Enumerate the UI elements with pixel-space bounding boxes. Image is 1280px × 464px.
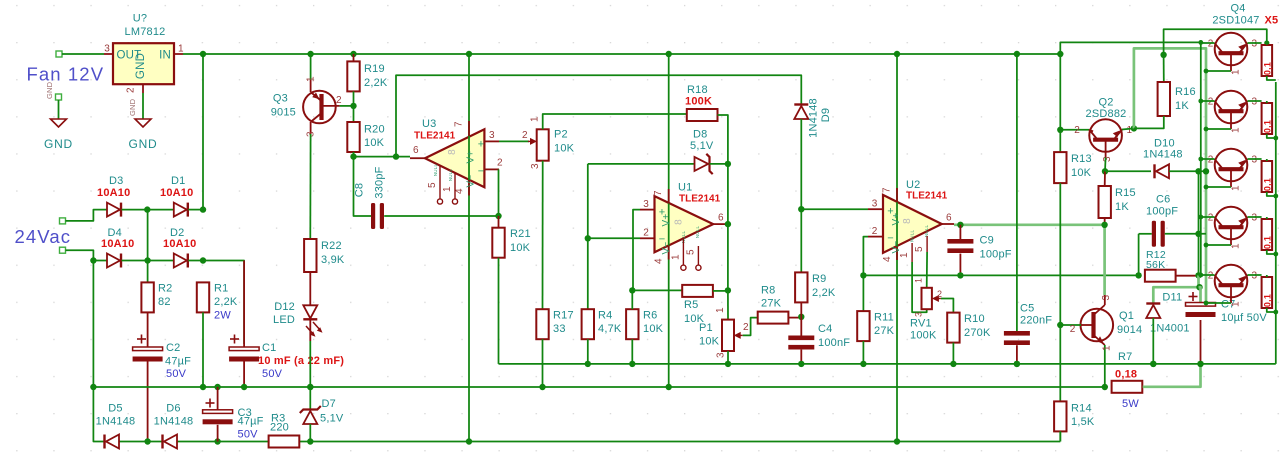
svg-text:3: 3 bbox=[1252, 97, 1258, 108]
wire base hook 3 bbox=[1206, 186, 1231, 188]
pin 1 of U? bbox=[174, 53, 183, 55]
wire feedback up and over to D9 bbox=[396, 75, 801, 156]
svg-text:1: 1 bbox=[178, 44, 184, 55]
svg-text:NULL: NULL bbox=[924, 225, 929, 238]
wire output right bus bbox=[1275, 82, 1277, 364]
wire base hook 2 bbox=[1206, 128, 1231, 130]
svg-text:5: 5 bbox=[427, 182, 438, 188]
svg-text:GND: GND bbox=[44, 137, 73, 151]
wire R14 bottom to negative rail bbox=[1059, 431, 1061, 441]
svg-text:D7: D7 bbox=[322, 398, 336, 410]
svg-text:P2: P2 bbox=[554, 129, 568, 141]
junction R19/R20/Q3 base bbox=[350, 103, 356, 109]
junction U3 out / feedback col bbox=[393, 153, 399, 159]
junction rail/LM IN bbox=[200, 51, 206, 57]
potentiometer P2 bbox=[537, 129, 549, 160]
svg-text:2: 2 bbox=[1208, 213, 1214, 224]
wire R12 right to bus bbox=[1176, 275, 1199, 277]
wire U2 V+ / V- column bbox=[896, 54, 898, 442]
svg-text:2SD1047: 2SD1047 bbox=[1212, 15, 1259, 27]
svg-text:2: 2 bbox=[1074, 125, 1080, 136]
svg-text:2: 2 bbox=[1208, 271, 1214, 282]
wire R8 right to R9/C4 bbox=[788, 317, 801, 319]
svg-text:1: 1 bbox=[715, 307, 726, 313]
junction C7 / rail A bbox=[1197, 361, 1203, 367]
svg-text:10K: 10K bbox=[554, 143, 575, 155]
pin 3 of U? bbox=[104, 53, 113, 55]
svg-text:3,9K: 3,9K bbox=[321, 254, 345, 266]
wire P2 pin3 down to R17 bbox=[542, 161, 544, 310]
svg-text:2,2K: 2,2K bbox=[214, 296, 238, 308]
svg-text:10A10: 10A10 bbox=[97, 187, 130, 199]
svg-text:50V: 50V bbox=[262, 368, 283, 380]
wire R9 to C4 node bbox=[800, 302, 802, 316]
diode D1 bbox=[174, 203, 187, 217]
svg-text:R9: R9 bbox=[812, 273, 826, 285]
svg-text:1: 1 bbox=[1231, 127, 1242, 133]
wire Q3 collector to R22 bbox=[309, 134, 311, 238]
capacitor C4 bbox=[800, 317, 802, 336]
svg-text:NULL: NULL bbox=[433, 164, 438, 177]
wire GND rail B bbox=[93, 386, 1104, 388]
svg-text:2W: 2W bbox=[214, 310, 231, 322]
resistor R4 bbox=[582, 309, 594, 339]
svg-text:0,1: 0,1 bbox=[1262, 62, 1272, 75]
svg-text:C6: C6 bbox=[1156, 194, 1170, 206]
junction C5 bottom bbox=[1014, 361, 1020, 367]
junction U1 pin2/D8/R4 bbox=[585, 235, 591, 241]
svg-text:RV1: RV1 bbox=[910, 318, 932, 330]
pin 2 of U? bbox=[142, 84, 144, 93]
diode D5 bbox=[106, 435, 119, 449]
wire R18 right to U1 out col bbox=[718, 115, 728, 164]
transistor Q3 9015 bbox=[303, 91, 336, 124]
svg-text:2: 2 bbox=[937, 289, 942, 299]
svg-text:10 mF (a 22 mF): 10 mF (a 22 mF) bbox=[258, 355, 344, 367]
junction R12 right bbox=[1195, 272, 1201, 278]
wire R6 to rail A bbox=[631, 339, 633, 364]
wire collector stub 1 bbox=[1201, 42, 1215, 44]
wire collector stub 3 bbox=[1201, 158, 1215, 160]
svg-text:7: 7 bbox=[882, 187, 893, 193]
svg-text:2: 2 bbox=[872, 226, 878, 237]
wire emitter stub 3 bbox=[1248, 158, 1262, 160]
wire U1 V+ / V- column bbox=[668, 54, 670, 387]
resistor R emitter 0.1 unit 4 bbox=[1262, 219, 1273, 250]
svg-text:V−: V− bbox=[891, 241, 902, 254]
svg-text:Q1: Q1 bbox=[1119, 310, 1134, 322]
svg-text:NULL: NULL bbox=[910, 230, 915, 243]
diode D3 bbox=[107, 203, 120, 217]
svg-text:10A10: 10A10 bbox=[160, 187, 193, 199]
junction rail/U3 V+ bbox=[466, 51, 472, 57]
wire Q3 emitter from rail bbox=[310, 54, 312, 80]
svg-text:1N4148: 1N4148 bbox=[1143, 149, 1183, 161]
svg-text:27K: 27K bbox=[874, 325, 895, 337]
svg-text:1: 1 bbox=[914, 278, 924, 283]
svg-text:100K: 100K bbox=[685, 96, 712, 108]
junction R5/P1/U1out bbox=[725, 287, 731, 293]
pin 3 of U1 bbox=[640, 209, 655, 211]
svg-text:3: 3 bbox=[643, 199, 649, 210]
pin 5 of U1 no-connect bbox=[697, 246, 699, 265]
wire collector stub 2 bbox=[1201, 100, 1215, 102]
svg-text:V+: V+ bbox=[466, 151, 477, 164]
svg-text:100K: 100K bbox=[910, 330, 937, 342]
svg-text:3: 3 bbox=[489, 130, 495, 141]
svg-text:3: 3 bbox=[1252, 271, 1258, 282]
wire U3 V+/V- column bbox=[468, 54, 470, 442]
junction U2 out / C9 bbox=[957, 222, 963, 228]
svg-text:1: 1 bbox=[1231, 243, 1242, 249]
junction U2 pin2 / rail bbox=[860, 272, 866, 278]
svg-text:100pF: 100pF bbox=[980, 249, 1012, 261]
junction rail/C5 bbox=[1014, 51, 1020, 57]
svg-text:2: 2 bbox=[643, 228, 649, 239]
wire R1 to GND rail bbox=[202, 312, 204, 387]
junction U3 output node bbox=[350, 153, 356, 159]
svg-text:GND: GND bbox=[128, 98, 137, 116]
svg-text:5: 5 bbox=[686, 249, 697, 255]
svg-text:2: 2 bbox=[336, 95, 342, 106]
resistor R5 bbox=[682, 285, 713, 297]
svg-text:V+: V+ bbox=[661, 214, 672, 227]
op-amp U3 TLE2141 bbox=[425, 129, 484, 187]
wire U3 pin3 to P2 wiper bbox=[499, 140, 529, 142]
resistor R10 bbox=[947, 313, 959, 343]
svg-text:R21: R21 bbox=[510, 228, 531, 240]
wire emitter stub 4 bbox=[1248, 216, 1262, 218]
wire R5 right to U1 out col bbox=[713, 290, 728, 292]
wire Q3 base to R19/R20 node bbox=[340, 105, 354, 107]
svg-text:3: 3 bbox=[1102, 156, 1113, 162]
wire pad1 jog to diode row 1 bbox=[66, 210, 108, 221]
wire R11 to rail A bbox=[862, 341, 864, 364]
junction Q2 base / R15 / D10 bbox=[1102, 168, 1108, 174]
junction R16 top bbox=[1160, 52, 1166, 58]
capacitor C9 bbox=[959, 225, 961, 239]
svg-text:8: 8 bbox=[447, 149, 458, 155]
svg-text:100pF: 100pF bbox=[1146, 206, 1178, 218]
junction R15 / Q1 collector bbox=[1101, 222, 1107, 228]
wire base hook 1 bbox=[1206, 70, 1231, 72]
svg-text:1: 1 bbox=[671, 254, 682, 260]
svg-text:2: 2 bbox=[1070, 324, 1076, 335]
junction Q1 emitter / R7 / GND rail bbox=[1102, 384, 1108, 390]
svg-text:330pF: 330pF bbox=[374, 166, 386, 198]
svg-text:V+: V+ bbox=[891, 213, 902, 226]
svg-text:R10: R10 bbox=[964, 313, 985, 325]
wire emitter stub 5 bbox=[1248, 274, 1262, 276]
svg-text:24Vac: 24Vac bbox=[15, 226, 72, 247]
transistor Q4 unit 4 bbox=[1215, 207, 1248, 240]
svg-text:−: − bbox=[478, 166, 485, 178]
pad Fan 12V bbox=[56, 51, 62, 57]
pin 1 of U2 bbox=[911, 243, 913, 262]
wire D3 to D1 bbox=[122, 209, 174, 211]
wire Q2 collector bbox=[1060, 129, 1089, 131]
svg-text:10K: 10K bbox=[364, 137, 385, 149]
pin 6 of U2 bbox=[942, 223, 954, 225]
svg-text:0,18: 0,18 bbox=[1115, 369, 1137, 381]
wire R4 to rail A bbox=[587, 339, 589, 364]
pad 24Vac lower bbox=[60, 247, 66, 253]
wire rail branch to collector bus bbox=[1060, 42, 1201, 54]
wire U2 pin3 from D9 node bbox=[801, 208, 868, 210]
junction R18/D8/U1out bbox=[725, 161, 731, 167]
junction collector bus top bbox=[1198, 40, 1203, 45]
wire LM IN column down to bridge bbox=[202, 54, 204, 210]
svg-text:R18: R18 bbox=[687, 84, 708, 96]
svg-text:0,1: 0,1 bbox=[1262, 120, 1272, 133]
svg-text:R2: R2 bbox=[158, 283, 172, 295]
wire D11 anode to rail A bbox=[1152, 318, 1154, 364]
resistor R9 bbox=[795, 272, 807, 302]
svg-text:C2: C2 bbox=[166, 342, 180, 354]
svg-text:TLE2141: TLE2141 bbox=[414, 131, 456, 142]
junction C7 top bbox=[1196, 284, 1202, 290]
svg-text:Fan 12V: Fan 12V bbox=[27, 64, 105, 85]
wire emitter resistor hook 4 bbox=[1266, 217, 1268, 219]
svg-text:8: 8 bbox=[902, 218, 913, 224]
svg-text:IN: IN bbox=[159, 50, 171, 62]
wire C7 branch (drive net) bbox=[1199, 287, 1201, 302]
svg-text:2,2K: 2,2K bbox=[812, 287, 836, 299]
diode D12 LED bbox=[309, 272, 311, 305]
wire D2 to +V column bbox=[188, 260, 203, 262]
junction bridge row2 bbox=[144, 257, 150, 263]
svg-text:0,1: 0,1 bbox=[1262, 236, 1272, 249]
resistor R6 bbox=[626, 309, 638, 339]
wire collector stub 4 bbox=[1201, 216, 1215, 218]
svg-text:3: 3 bbox=[1101, 295, 1112, 301]
resistor R21 bbox=[498, 216, 500, 228]
wire main +V rail bbox=[203, 53, 1060, 55]
svg-text:C4: C4 bbox=[818, 323, 832, 335]
svg-text:V−: V− bbox=[661, 242, 672, 255]
svg-text:100nF: 100nF bbox=[818, 337, 850, 349]
svg-text:7: 7 bbox=[454, 121, 465, 127]
capacitor C8 bbox=[371, 203, 375, 229]
pin 1 of U3 no-connect bbox=[454, 173, 456, 199]
junction Q2 collector wire bbox=[1057, 127, 1063, 133]
svg-text:1: 1 bbox=[1102, 345, 1113, 351]
wire U2 pin1 to RV1 bottom bbox=[912, 262, 927, 312]
svg-text:R20: R20 bbox=[364, 124, 385, 136]
svg-text:47µF: 47µF bbox=[238, 416, 264, 428]
junction D12 / GND rail bbox=[307, 384, 313, 390]
junction R6 top / R5 row bbox=[629, 287, 635, 293]
svg-text:NULL: NULL bbox=[448, 169, 453, 182]
svg-text:1K: 1K bbox=[1115, 201, 1129, 213]
pin 5 of U2 bbox=[926, 236, 928, 252]
resistor R13 bbox=[1054, 152, 1066, 183]
wire output top link bbox=[1164, 29, 1267, 55]
pin 2 of U3 bbox=[484, 168, 499, 170]
resistor R14 bbox=[1054, 401, 1066, 431]
pin 6 of U1 bbox=[713, 223, 728, 225]
svg-text:GND: GND bbox=[135, 53, 147, 79]
svg-text:R1: R1 bbox=[214, 283, 228, 295]
junction R12 left bbox=[1135, 272, 1141, 278]
svg-text:5W: 5W bbox=[1122, 398, 1139, 410]
svg-text:TLE2141: TLE2141 bbox=[679, 194, 721, 205]
pin 3 of U3 bbox=[484, 140, 499, 142]
svg-text:220: 220 bbox=[270, 422, 289, 434]
wire U2 pin2 to V- node bbox=[863, 237, 868, 276]
svg-text:33: 33 bbox=[553, 323, 566, 335]
svg-text:1: 1 bbox=[1231, 69, 1242, 75]
svg-text:D1: D1 bbox=[171, 175, 185, 187]
wire emitter resistor hook 2 bbox=[1266, 101, 1268, 103]
pin 2 of U2 bbox=[868, 236, 883, 238]
diode D6 bbox=[164, 435, 177, 449]
resistor R emitter 0.1 unit 5 bbox=[1262, 277, 1273, 308]
svg-text:3: 3 bbox=[1252, 39, 1258, 50]
svg-text:2,2K: 2,2K bbox=[364, 77, 388, 89]
svg-text:3: 3 bbox=[1252, 213, 1258, 224]
svg-text:1: 1 bbox=[530, 116, 541, 122]
svg-text:D3: D3 bbox=[109, 175, 123, 187]
ground symbol at input bbox=[56, 94, 62, 100]
svg-text:P1: P1 bbox=[699, 322, 713, 334]
wire Q2 emitter to R16 node bbox=[1122, 128, 1134, 129]
svg-text:+: + bbox=[478, 139, 485, 151]
resistor R7 bbox=[1112, 381, 1143, 393]
junction rail/Q3 emitter bbox=[307, 51, 313, 57]
wire R21 down / rail A start bbox=[498, 258, 500, 364]
svg-text:2: 2 bbox=[126, 87, 137, 93]
wire U1 pin2 node bbox=[588, 237, 640, 239]
svg-text:9015: 9015 bbox=[271, 107, 296, 119]
svg-text:C9: C9 bbox=[980, 235, 994, 247]
svg-text:1: 1 bbox=[442, 186, 453, 192]
wire U3 pin2 down to R21 bbox=[498, 169, 500, 216]
resistor R22 bbox=[304, 239, 316, 272]
capacitor C2 bbox=[147, 312, 149, 347]
wire rail A (op-amp minus supply) bbox=[499, 363, 1276, 365]
resistor R17 bbox=[536, 309, 548, 339]
wire bridge mid column bbox=[147, 210, 149, 283]
regulator U? LM7812 bbox=[113, 43, 174, 84]
svg-text:10A10: 10A10 bbox=[101, 238, 134, 250]
resistor R emitter 0.1 unit 1 bbox=[1262, 45, 1273, 76]
svg-text:2: 2 bbox=[1208, 155, 1214, 166]
svg-text:GND: GND bbox=[128, 137, 157, 151]
wire row2 to C1 column bbox=[203, 261, 244, 345]
svg-text:56K: 56K bbox=[1146, 259, 1165, 271]
diode D10 1N4148 bbox=[1105, 170, 1151, 172]
svg-text:50V: 50V bbox=[166, 368, 187, 380]
wire C6 left down to R12 node bbox=[1138, 234, 1140, 276]
wire C1 minus to GND rail bbox=[243, 362, 245, 388]
wire pad2 jog to diode row 2 bbox=[66, 250, 108, 260]
wire R17 to GND rail bbox=[542, 339, 544, 387]
junction rail/U1 V+ bbox=[666, 51, 672, 57]
wire op-amp V- rail bbox=[863, 274, 1138, 276]
capacitor C7 bbox=[1189, 296, 1198, 298]
svg-text:2: 2 bbox=[743, 322, 749, 333]
svg-text:R13: R13 bbox=[1071, 153, 1092, 165]
svg-text:D11: D11 bbox=[1162, 292, 1182, 304]
svg-text:0,1: 0,1 bbox=[1262, 294, 1272, 307]
wire collector bus bbox=[1200, 42, 1202, 275]
wire D4 to D2 bbox=[122, 260, 174, 262]
capacitor C3 bbox=[217, 387, 219, 410]
pin 1 of U1 no-connect bbox=[682, 239, 684, 265]
svg-text:R15: R15 bbox=[1115, 187, 1136, 199]
resistor R2 bbox=[141, 282, 153, 312]
svg-text:R22: R22 bbox=[321, 240, 342, 252]
svg-text:1N4148: 1N4148 bbox=[808, 98, 820, 138]
capacitor C6 bbox=[1139, 233, 1152, 235]
wire 24Vac leg down to GND rail bbox=[92, 261, 94, 388]
svg-text:Q2: Q2 bbox=[1098, 97, 1113, 109]
svg-text:1: 1 bbox=[1231, 301, 1242, 307]
resistor R8 bbox=[758, 312, 789, 324]
resistor R16 bbox=[1158, 82, 1170, 116]
svg-text:6: 6 bbox=[413, 145, 419, 156]
wire R10 to rail A bbox=[952, 343, 954, 364]
wire C2 minus down to D5/D6 node bbox=[147, 362, 149, 442]
svg-text:R14: R14 bbox=[1071, 403, 1092, 415]
svg-text:V−: V− bbox=[466, 175, 477, 188]
wire C4 to rail A bbox=[800, 350, 802, 364]
svg-text:D12: D12 bbox=[274, 301, 295, 313]
svg-text:10µf 50V: 10µf 50V bbox=[1221, 312, 1267, 324]
resistor R3 bbox=[269, 436, 300, 448]
diode D4 bbox=[107, 254, 120, 268]
wire P1 bottom to rail A bbox=[727, 351, 729, 364]
resistor R19 bbox=[353, 54, 355, 61]
svg-text:R7: R7 bbox=[1118, 351, 1132, 363]
svg-text:D8: D8 bbox=[693, 129, 707, 141]
resistor R19 bbox=[347, 61, 359, 91]
svg-text:U2: U2 bbox=[906, 179, 920, 191]
transistor Q2 2SD882 bbox=[1089, 119, 1122, 152]
wire Q2 emitter to output base bus (drive net) bbox=[1134, 48, 1206, 303]
svg-text:10K: 10K bbox=[510, 242, 531, 254]
junction Q1 base bbox=[1057, 322, 1063, 328]
wire R5 row bbox=[632, 289, 682, 291]
svg-text:6: 6 bbox=[946, 213, 952, 224]
svg-text:10K: 10K bbox=[1071, 167, 1092, 179]
pin 6 of U3 bbox=[410, 157, 425, 159]
wire R15 bottom to U2 out row bbox=[1104, 218, 1106, 225]
wire base hook 4 bbox=[1206, 244, 1231, 246]
junction D2 cathode bbox=[200, 257, 206, 263]
junction C6 / bus bbox=[1195, 231, 1201, 237]
resistor R1 bbox=[197, 282, 209, 312]
svg-text:4,7K: 4,7K bbox=[598, 323, 622, 335]
wire bus down to D11/C7 (drive net) bbox=[1153, 275, 1198, 303]
wire C8 leg down bbox=[354, 157, 372, 216]
junction Q2 emitter bbox=[1131, 125, 1137, 131]
op-amp U1 TLE2141 bbox=[655, 196, 714, 252]
wire protection bus vertical bbox=[1198, 171, 1200, 275]
junction D1 cathode bbox=[200, 206, 206, 212]
wire P1 wiper to R8 bbox=[743, 318, 758, 336]
wire U3 out row bbox=[354, 156, 411, 158]
svg-text:C8: C8 bbox=[354, 183, 366, 197]
svg-text:U1: U1 bbox=[678, 182, 692, 194]
wire emitter stub 1 bbox=[1248, 42, 1262, 44]
resistor R15 bbox=[1099, 186, 1111, 218]
svg-text:1N4148: 1N4148 bbox=[154, 416, 194, 428]
svg-text:9014: 9014 bbox=[1117, 324, 1142, 336]
wire U? pin1 to main rail bbox=[183, 53, 203, 55]
junction D11 / rail A bbox=[1150, 361, 1156, 367]
